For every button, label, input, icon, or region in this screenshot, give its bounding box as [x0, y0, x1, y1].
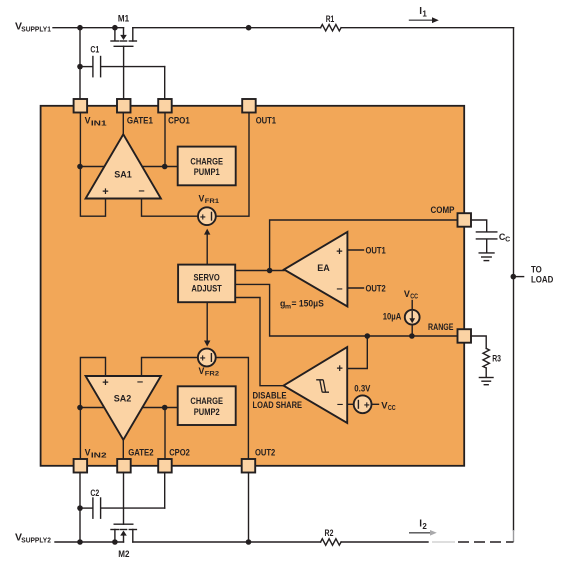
junction TO LOAD — [511, 274, 517, 280]
svg-text:LOAD: LOAD — [531, 275, 553, 285]
svg-text:OUT1: OUT1 — [366, 245, 386, 255]
svg-text:CC: CC — [410, 294, 418, 301]
svg-text:V: V — [85, 448, 91, 458]
junction CPO2 / charge pump 2 wire — [162, 405, 168, 411]
svg-text:V: V — [404, 289, 410, 299]
ground (Cc) — [479, 253, 494, 261]
pin OUT2 — [242, 459, 256, 473]
wire servo to EA input — [235, 270, 284, 272]
wire C2 to CPO2 — [164, 473, 166, 509]
wire C1 to CPO1 — [164, 67, 166, 99]
wire EA input to COMP — [270, 220, 458, 271]
svg-text:OUT2: OUT2 — [255, 448, 275, 458]
pin VIN2 — [74, 459, 88, 473]
op-amp SA1 — [86, 134, 161, 198]
pin label GATE1 — [127, 116, 153, 126]
comparator U2 (disable load share) — [284, 347, 348, 423]
value gm label — [280, 299, 324, 311]
node OUT1 label (EA) — [366, 245, 386, 255]
pin COMP — [458, 213, 472, 227]
svg-text:+: + — [336, 246, 342, 258]
servo adjust box — [178, 265, 235, 303]
pin GATE2 — [117, 459, 131, 473]
wire EA OUT1 stub — [347, 249, 363, 251]
svg-text:1: 1 — [422, 9, 427, 18]
wire top supply rail — [53, 27, 514, 29]
pin label CPO2 — [169, 448, 190, 458]
junction top rail / VIN1 — [77, 25, 83, 31]
wire CPO1 drop — [164, 113, 166, 167]
svg-text:CHARGE: CHARGE — [190, 396, 223, 406]
resistor R2 — [321, 528, 342, 545]
svg-text:SA2: SA2 — [114, 394, 132, 404]
op-amp SA2 — [86, 376, 161, 440]
pin OUT1 — [242, 99, 256, 113]
current arrow I1 — [409, 6, 439, 23]
svg-text:PUMP1: PUMP1 — [194, 167, 220, 177]
svg-text:GATE2: GATE2 — [128, 448, 153, 458]
pin label COMP — [431, 205, 455, 215]
node VFR2 label — [199, 366, 220, 378]
svg-text:COMP: COMP — [431, 205, 455, 215]
svg-text:CPO2: CPO2 — [169, 448, 190, 458]
svg-text:+: + — [200, 354, 206, 365]
wire right bus (load) — [513, 28, 515, 542]
transistor M2 — [111, 473, 136, 560]
pin GATE1 — [117, 99, 131, 113]
svg-text:LOAD SHARE: LOAD SHARE — [253, 400, 303, 410]
wire RANGE pin to R3 — [471, 336, 486, 348]
svg-text:C1: C1 — [90, 44, 99, 54]
current arrow I2 — [409, 519, 437, 536]
svg-text:= 150µS: = 150µS — [292, 299, 324, 309]
wire SA1 minus to VFR1 — [142, 199, 198, 217]
wire VFR2 to OUT2 — [216, 358, 248, 460]
junction top rail / OUT1 — [246, 25, 252, 31]
current source 10uA — [383, 289, 420, 336]
pin RANGE — [458, 329, 472, 343]
svg-text:GATE1: GATE1 — [127, 116, 153, 126]
junction VIN1 / C1 — [77, 64, 83, 70]
junction VIN1 net / SA1 left — [77, 164, 83, 170]
svg-text:SUPPLY2: SUPPLY2 — [21, 536, 51, 545]
wire comparator minus stub — [347, 403, 353, 405]
svg-text:CPO1: CPO1 — [168, 116, 190, 126]
node VSUPPLY2 label — [15, 532, 51, 545]
svg-text:+: + — [336, 363, 342, 375]
resistor R1 — [321, 14, 342, 31]
svg-text:DISABLE: DISABLE — [253, 390, 287, 400]
svg-text:R2: R2 — [325, 528, 334, 538]
transistor M1 — [111, 14, 136, 100]
svg-text:ADJUST: ADJUST — [191, 284, 222, 294]
junction bottom rail / VIN2 — [77, 539, 83, 545]
node VFR1 label — [199, 193, 220, 205]
wire servo to RANGE — [235, 284, 457, 336]
wire SA1 left input net (VIN1 internal) — [80, 113, 106, 217]
charge pump 2 box — [178, 386, 236, 425]
svg-text:SERVO: SERVO — [194, 272, 220, 282]
svg-text:SA1: SA1 — [114, 170, 132, 180]
capacitor CC — [476, 232, 510, 252]
svg-text:+: + — [102, 186, 108, 198]
svg-text:M2: M2 — [118, 549, 129, 559]
svg-text:–: – — [337, 399, 343, 411]
svg-text:FR1: FR1 — [205, 198, 219, 205]
IC block body — [41, 106, 465, 466]
wire VIN1 drop from rail — [79, 28, 81, 99]
wire servo to comparator input — [235, 298, 283, 386]
wire VFR1 to OUT1 — [216, 113, 249, 217]
wire comparator plus to RANGE — [347, 336, 367, 369]
current source VFR2 — [198, 349, 216, 367]
charge pump 1 box — [178, 147, 236, 186]
wire TO LOAD stub — [514, 276, 524, 278]
junction bottom rail / OUT2 — [246, 539, 252, 545]
pin label CPO1 — [168, 116, 190, 126]
wire SA2 apex to GATE2 — [122, 440, 124, 459]
wire SA2 right to charge pump 2 — [143, 407, 178, 409]
svg-text:V: V — [199, 366, 205, 376]
junction RANGE / 10uA — [409, 333, 415, 339]
svg-text:OUT1: OUT1 — [256, 116, 276, 126]
svg-text:m: m — [285, 304, 291, 311]
svg-text:RANGE: RANGE — [428, 322, 454, 332]
svg-text:SUPPLY1: SUPPLY1 — [21, 25, 51, 34]
wire COMP pin to Cc — [471, 220, 487, 231]
junction VIN2 / C2 — [77, 505, 83, 511]
wire SA2 plus input net (VIN2 internal) — [80, 358, 106, 460]
junction bottom rail / M2 source — [112, 539, 118, 545]
junction EA input node — [267, 268, 273, 274]
ground (R3) — [479, 378, 493, 385]
svg-text:M1: M1 — [118, 14, 129, 24]
svg-text:CC: CC — [388, 405, 396, 412]
pin label RANGE — [428, 322, 454, 332]
voltage source 0.3V — [354, 383, 396, 413]
junction CPO1 / charge pump wire — [162, 164, 168, 170]
svg-text:TO: TO — [531, 264, 542, 274]
wire SA2 minus to VFR2 — [142, 358, 198, 377]
svg-text:C2: C2 — [90, 488, 99, 498]
pin label GATE2 — [128, 448, 153, 458]
pin CPO1 — [158, 99, 172, 113]
label disable load share — [253, 390, 303, 410]
svg-text:10µA: 10µA — [383, 311, 402, 321]
svg-text:0.3V: 0.3V — [354, 383, 370, 393]
node OUT2 label (EA) — [366, 283, 386, 293]
junction RANGE / comparator — [365, 333, 371, 339]
svg-text:V: V — [85, 116, 91, 126]
label TO LOAD — [531, 264, 553, 284]
svg-text:PUMP2: PUMP2 — [194, 407, 220, 417]
junction top rail / M1 source — [112, 25, 118, 31]
pin CPO2 — [158, 459, 172, 473]
svg-text:+: + — [102, 377, 108, 389]
op-amp EA — [284, 232, 347, 307]
wire VIN2 drop to rail — [79, 473, 81, 543]
svg-text:V: V — [199, 193, 205, 203]
resistor R3 — [483, 348, 501, 377]
wire EA OUT2 stub — [347, 287, 363, 289]
wire bottom supply rail — [55, 541, 514, 543]
wire GATE1 to SA1 apex — [122, 113, 124, 135]
svg-text:IN1: IN1 — [91, 120, 107, 127]
svg-text:CHARGE: CHARGE — [190, 157, 223, 167]
pin label VIN1 — [85, 116, 107, 128]
svg-text:C: C — [505, 237, 510, 244]
pin VIN1 — [74, 99, 88, 113]
junction VIN2 net / SA2 left — [77, 405, 83, 411]
svg-text:FR2: FR2 — [205, 371, 219, 378]
capacitor C2 — [80, 488, 165, 518]
svg-text:–: – — [138, 185, 144, 197]
svg-text:EA: EA — [317, 263, 330, 273]
wire SA1 right to charge pump — [142, 166, 178, 168]
capacitor C1 — [80, 44, 165, 76]
arrow servo to VFR1 — [204, 229, 210, 265]
current source VFR1 — [198, 207, 216, 225]
svg-text:OUT2: OUT2 — [366, 283, 386, 293]
wire CPO2 riser — [164, 408, 166, 460]
svg-text:R1: R1 — [326, 14, 335, 24]
pin label VIN2 — [85, 448, 107, 460]
svg-text:+: + — [200, 212, 206, 223]
pin label OUT1 — [256, 116, 276, 126]
svg-text:–: – — [137, 376, 143, 388]
svg-text:2: 2 — [422, 522, 427, 531]
node VSUPPLY1 label — [15, 21, 51, 34]
svg-text:IN2: IN2 — [91, 452, 107, 459]
arrow servo to VFR2 — [204, 302, 210, 346]
svg-text:+: + — [364, 400, 370, 411]
pin label OUT2 — [255, 448, 275, 458]
svg-text:–: – — [336, 283, 342, 295]
svg-text:R3: R3 — [492, 354, 501, 364]
wire OUT2 drop to rail — [248, 473, 250, 543]
